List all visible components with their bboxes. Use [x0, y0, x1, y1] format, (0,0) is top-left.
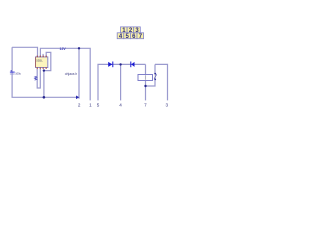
svg-text:5: 5: [97, 102, 100, 107]
svg-text:3: 3: [166, 102, 169, 107]
svg-text:2: 2: [78, 102, 81, 107]
svg-text:555L: 555L: [36, 59, 43, 63]
svg-text:4: 4: [119, 102, 122, 107]
svg-text:7: 7: [144, 102, 147, 107]
svg-text:ohjaus h: ohjaus h: [65, 72, 78, 76]
svg-text:1: 1: [89, 102, 92, 107]
svg-text:12V: 12V: [60, 47, 67, 51]
svg-text:100u: 100u: [15, 71, 21, 75]
